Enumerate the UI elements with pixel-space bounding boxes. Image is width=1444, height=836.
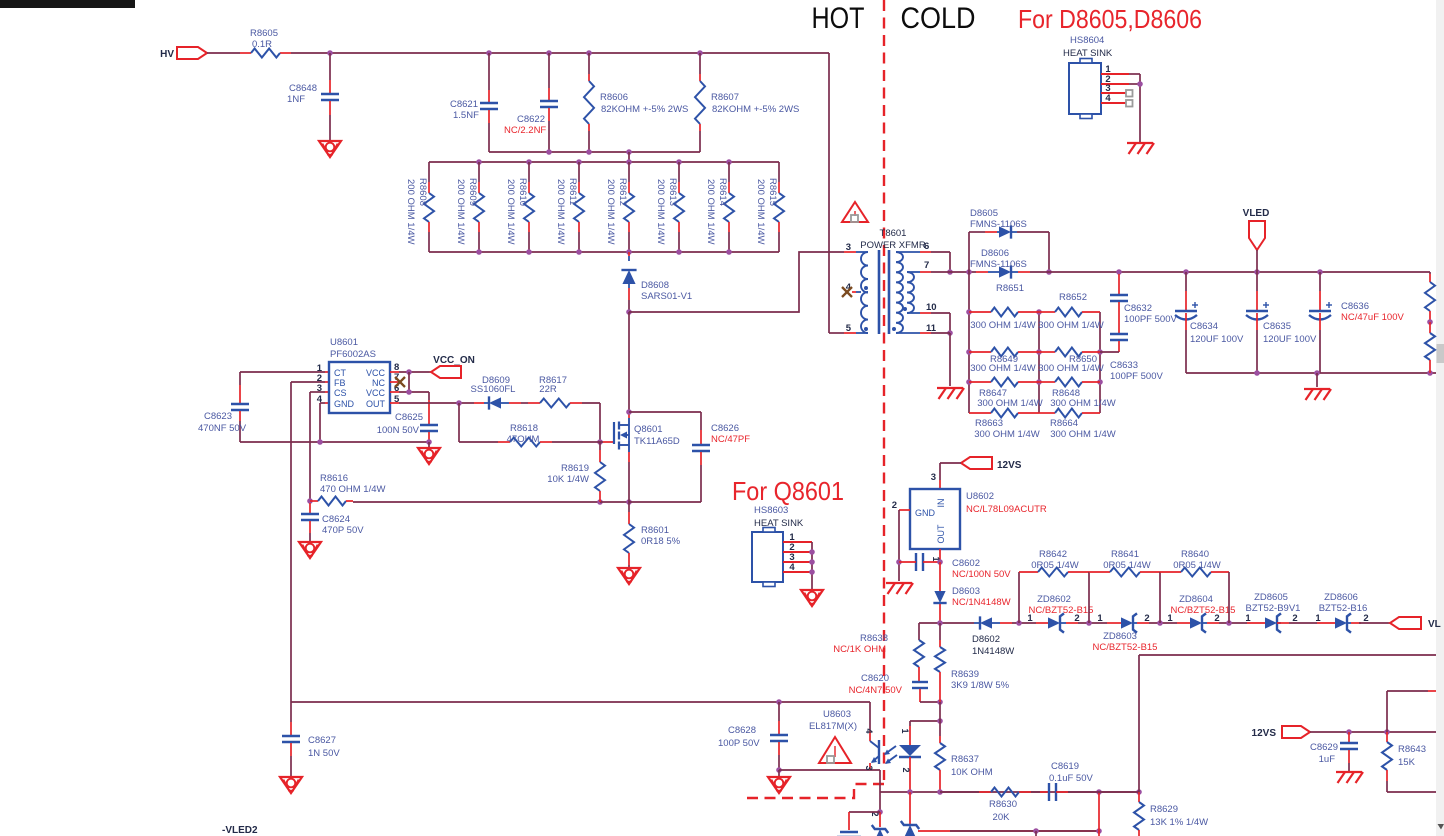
capacitor C8626: [629, 412, 750, 502]
wire bank top rail: [429, 159, 779, 165]
wire gnd bus U8601: [240, 439, 432, 447]
svg-text:POWER XFMR: POWER XFMR: [860, 240, 926, 251]
browser top bar fragment: [0, 0, 135, 8]
capacitor C8634: [1175, 272, 1244, 373]
wire chain seg4: [1219, 620, 1247, 626]
wire CT pin1: [240, 372, 329, 385]
wire drain: [626, 312, 632, 415]
capacitor C8619: [1040, 761, 1139, 801]
svg-text:3: 3: [864, 765, 874, 770]
svg-text:CT: CT: [334, 368, 346, 378]
resistor chain right edge bottom: [1425, 319, 1435, 373]
svg-text:4: 4: [1105, 93, 1111, 104]
svg-text:300 OHM 1/4W: 300 OHM 1/4W: [970, 363, 1035, 374]
diode D8605: [970, 208, 1027, 239]
svg-text:U8603: U8603: [823, 709, 851, 720]
svg-text:C8623: C8623: [204, 411, 232, 422]
resistor R8630: [940, 788, 1040, 824]
wire HV top rail: [207, 50, 829, 56]
svg-text:HEAT SINK: HEAT SINK: [1063, 48, 1113, 59]
resistor R8650: [1038, 348, 1103, 375]
svg-text:300 OHM 1/4W: 300 OHM 1/4W: [1050, 429, 1115, 440]
svg-text:120UF 100V: 120UF 100V: [1263, 334, 1317, 345]
svg-text:R8611: R8611: [567, 178, 578, 205]
svg-text:300 OHM 1/4W: 300 OHM 1/4W: [1038, 363, 1103, 374]
svg-text:BZT52-B16: BZT52-B16: [1319, 603, 1368, 614]
wire bottom rail 2: [918, 792, 1102, 836]
svg-text:C8625: C8625: [395, 412, 423, 423]
transformer T8601 secondary: [892, 241, 937, 334]
svg-text:0R05 1/4W: 0R05 1/4W: [1031, 560, 1079, 571]
svg-text:100PF 500V: 100PF 500V: [1110, 371, 1163, 382]
svg-text:GND: GND: [334, 399, 355, 409]
resistor R8643: [1382, 732, 1426, 792]
svg-text:R8612: R8612: [617, 178, 628, 206]
svg-text:R8613: R8613: [667, 178, 678, 206]
resistor R8608: [405, 162, 434, 252]
scrollbar track: [1436, 0, 1444, 836]
ic U8601: [317, 337, 400, 413]
wire net left bus: [966, 272, 972, 413]
wire pin10 join pin11: [920, 313, 953, 336]
svg-text:10K 1/4W: 10K 1/4W: [547, 474, 589, 485]
wire OUT pin5: [390, 400, 474, 406]
svg-text:3: 3: [931, 472, 936, 483]
svg-text:NC/4N7 50V: NC/4N7 50V: [849, 685, 903, 696]
svg-text:20K: 20K: [993, 812, 1011, 823]
svg-text:C8634: C8634: [1190, 321, 1218, 332]
label T8601: [860, 228, 926, 251]
resistor R8618 branch: [459, 403, 600, 447]
svg-text:300 OHM 1/4W: 300 OHM 1/4W: [977, 398, 1042, 409]
svg-text:47OHM: 47OHM: [507, 434, 540, 445]
svg-text:1: 1: [1167, 613, 1173, 624]
svg-text:IN: IN: [936, 499, 946, 508]
svg-text:R8651: R8651: [996, 283, 1024, 294]
svg-text:2: 2: [892, 500, 897, 511]
svg-text:470P 50V: 470P 50V: [322, 525, 364, 536]
wire VCC pin6: [390, 389, 429, 400]
wire bottom rail: [880, 789, 1142, 795]
svg-text:SS1060FL: SS1060FL: [471, 384, 516, 395]
svg-text:R8608: R8608: [417, 178, 428, 206]
svg-text:R8616: R8616: [320, 473, 348, 484]
svg-text:1NF: 1NF: [287, 94, 305, 105]
port 12VS: [961, 457, 1022, 471]
capacitor C8628: [718, 702, 788, 773]
svg-text:R8663: R8663: [975, 418, 1003, 429]
ic U8602: [910, 489, 1047, 549]
svg-text:0.1uF 50V: 0.1uF 50V: [1049, 773, 1093, 784]
resistor R8615: [755, 162, 784, 252]
svg-text:R8615: R8615: [767, 178, 778, 206]
resistor R8606: [584, 53, 688, 152]
resistor R8652: [1038, 292, 1103, 331]
wire bottom cap branch: [849, 812, 880, 830]
svg-text:For Q8601: For Q8601: [732, 476, 844, 506]
resistor R8637: [935, 721, 993, 792]
svg-text:C8635: C8635: [1263, 321, 1291, 332]
resistor R8629: [1134, 792, 1208, 836]
label U8603: [809, 709, 857, 732]
svg-text:3: 3: [846, 242, 851, 253]
capacitor C8621: [450, 53, 498, 152]
ground R8601: [618, 568, 640, 584]
ground C8624: [299, 542, 321, 558]
capacitor C8624: [301, 503, 364, 541]
zener ZD8606: [1315, 592, 1368, 633]
transistor Q8601: [614, 412, 680, 462]
wire GND pin4: [320, 403, 329, 442]
svg-text:-VLED2: -VLED2: [222, 825, 258, 836]
svg-text:470 OHM 1/4W: 470 OHM 1/4W: [320, 484, 385, 495]
resistor chain right edge top: [1425, 272, 1435, 322]
svg-text:NC/1K OHM: NC/1K OHM: [833, 644, 886, 655]
diode D8602: [972, 616, 1014, 657]
svg-text:R8629: R8629: [1150, 804, 1178, 815]
wire D8608 to xfmr pin3: [626, 252, 856, 315]
ground U8602: [886, 583, 913, 594]
svg-text:D8608: D8608: [641, 280, 669, 291]
svg-text:R8606: R8606: [600, 92, 628, 103]
svg-text:100PF 500V: 100PF 500V: [1124, 314, 1177, 325]
svg-text:300 OHM 1/4W: 300 OHM 1/4W: [1050, 398, 1115, 409]
svg-text:470NF 50V: 470NF 50V: [198, 423, 247, 434]
svg-text:R8601: R8601: [641, 525, 669, 536]
svg-text:2: 2: [1144, 613, 1149, 624]
svg-text:200 OHM 1/4W: 200 OHM 1/4W: [405, 179, 416, 244]
svg-text:U8602: U8602: [966, 491, 994, 502]
diode D8609: [471, 375, 521, 410]
ground C8628: [768, 770, 790, 793]
svg-text:C8621: C8621: [450, 99, 478, 110]
ground C8629: [1336, 772, 1363, 783]
wire HS8603 ground: [801, 542, 823, 606]
ground C8627: [280, 777, 302, 793]
svg-text:82KOHM +-5% 2WS: 82KOHM +-5% 2WS: [601, 104, 688, 115]
svg-text:2: 2: [1214, 613, 1219, 624]
heatsink HS8603: [752, 505, 812, 587]
svg-text:D8602: D8602: [972, 634, 1000, 645]
svg-text:2: 2: [901, 767, 911, 772]
capacitor C8625: [377, 400, 438, 441]
label -VLED2: [222, 825, 258, 836]
scrollbar thumb: [1437, 344, 1444, 363]
resistor R8663: [969, 409, 1040, 441]
wire pin7 output: [920, 269, 976, 275]
svg-text:R8640: R8640: [1181, 549, 1209, 560]
note For Q8601: [732, 476, 844, 506]
resistor R8649: [969, 348, 1039, 375]
svg-text:13K 1% 1/4W: 13K 1% 1/4W: [1150, 817, 1208, 828]
wire pin6 join pin7: [920, 252, 953, 275]
svg-text:OUT: OUT: [366, 399, 386, 409]
svg-text:C8629: C8629: [1310, 742, 1338, 753]
zener ZD8602: [1027, 594, 1093, 633]
svg-text:SARS01-V1: SARS01-V1: [641, 291, 692, 302]
wire U8602 pin1 out: [931, 549, 941, 562]
wire 12VS right rail: [1310, 729, 1436, 735]
svg-text:4: 4: [317, 394, 323, 405]
svg-text:NC/100N 50V: NC/100N 50V: [952, 569, 1011, 580]
svg-text:VL: VL: [1428, 619, 1441, 630]
wire 12VS to U8602: [931, 463, 961, 489]
wire opto emitter rail: [779, 770, 880, 792]
svg-text:C8602: C8602: [952, 558, 980, 569]
svg-text:0R05 1/4W: 0R05 1/4W: [1173, 560, 1221, 571]
resistor R8639: [935, 623, 1010, 702]
wire U8602 pin2 gnd: [892, 500, 910, 581]
svg-text:CS: CS: [334, 388, 347, 398]
opto led D: [899, 721, 921, 792]
svg-text:R8639: R8639: [951, 669, 979, 680]
zener bottom partial 2: [901, 792, 919, 836]
wire bank bottom rail: [429, 249, 779, 255]
svg-text:C8648: C8648: [289, 83, 317, 94]
capacitor C8623: [198, 385, 249, 442]
svg-text:HEAT SINK: HEAT SINK: [754, 518, 804, 529]
port VCC_ON: [431, 355, 475, 378]
svg-text:FMNS-1106S: FMNS-1106S: [970, 219, 1027, 230]
svg-text:C8633: C8633: [1110, 360, 1138, 371]
svg-text:15K: 15K: [1398, 757, 1416, 768]
wire R8639 to led node: [939, 702, 941, 721]
wire chain seg3: [1149, 620, 1177, 626]
svg-text:1.5NF: 1.5NF: [453, 110, 479, 121]
svg-text:R8619: R8619: [561, 463, 589, 474]
wire net right bus: [1097, 312, 1103, 413]
svg-text:NC: NC: [372, 378, 385, 388]
svg-text:R8664: R8664: [1050, 418, 1078, 429]
svg-text:100N 50V: 100N 50V: [377, 425, 420, 436]
svg-text:200 OHM 1/4W: 200 OHM 1/4W: [755, 179, 766, 244]
resistor R8616: [310, 473, 385, 506]
svg-text:NC/2.2NF: NC/2.2NF: [504, 125, 546, 136]
ground output bus: [1304, 373, 1331, 400]
svg-text:7: 7: [924, 260, 929, 271]
svg-text:1: 1: [1245, 613, 1251, 624]
svg-text:R8610: R8610: [517, 178, 528, 206]
svg-text:TK11A65D: TK11A65D: [634, 436, 680, 447]
resistor R8605: [250, 28, 280, 58]
wire source rail: [353, 462, 701, 505]
svg-text:NC/BZT52-B15: NC/BZT52-B15: [1171, 605, 1236, 616]
wire chain seg2: [1078, 620, 1107, 626]
svg-text:R8614: R8614: [717, 178, 728, 206]
resistor R8613: [655, 162, 684, 252]
wire chain to VL: [1359, 622, 1390, 624]
svg-text:VCC: VCC: [366, 388, 386, 398]
capacitor C8633: [1100, 302, 1163, 382]
svg-text:1: 1: [1027, 613, 1033, 624]
svg-text:ZD8602: ZD8602: [1037, 594, 1071, 605]
svg-text:COLD: COLD: [901, 2, 976, 35]
svg-text:120UF 100V: 120UF 100V: [1190, 334, 1244, 345]
svg-text:12VS: 12VS: [997, 460, 1022, 471]
resistor R8651 body: [969, 308, 1039, 332]
resistor R8610: [505, 162, 534, 252]
svg-text:82KOHM +-5% 2WS: 82KOHM +-5% 2WS: [712, 104, 799, 115]
hot-cold dashed divider: [744, 0, 884, 798]
svg-text:PF6002AS: PF6002AS: [330, 349, 376, 360]
wire D8605 loop: [969, 232, 1052, 275]
opto phototransistor: [864, 728, 879, 770]
wire VCC pin8: [390, 369, 431, 392]
resistor R8640: [1160, 549, 1229, 623]
svg-text:R8643: R8643: [1398, 744, 1426, 755]
svg-text:4: 4: [789, 562, 795, 573]
resistor R8612: [605, 162, 634, 252]
svg-text:C8622: C8622: [517, 114, 545, 125]
svg-text:R8607: R8607: [711, 92, 739, 103]
port VLED: [1243, 208, 1270, 272]
svg-text:200 OHM 1/4W: 200 OHM 1/4W: [505, 179, 516, 244]
svg-text:HS8604: HS8604: [1070, 35, 1104, 46]
port 12VS right: [1252, 726, 1310, 739]
diode D8606: [970, 248, 1030, 294]
capacitor C8648: [287, 53, 339, 140]
svg-text:R8641: R8641: [1111, 549, 1139, 560]
capacitor C8629: [1310, 732, 1358, 771]
ground xfmr secondary: [937, 388, 964, 399]
scrollbar arrow: [1438, 824, 1444, 830]
svg-text:Q8601: Q8601: [634, 424, 663, 435]
resistor R8664: [1039, 409, 1116, 441]
capacitor C8636: [1309, 272, 1405, 373]
opto light arrows: [884, 746, 897, 764]
resistor R8619: [547, 442, 605, 502]
svg-text:R8652: R8652: [1059, 292, 1087, 303]
note For D8605,D8606: [1018, 4, 1202, 34]
svg-text:12VS: 12VS: [1252, 728, 1277, 739]
svg-text:5: 5: [846, 323, 852, 334]
svg-text:22R: 22R: [539, 384, 557, 395]
svg-text:C8626: C8626: [711, 423, 739, 434]
warning triangle near T8601: [842, 202, 868, 222]
wire led anode: [910, 718, 943, 724]
svg-text:1N 50V: 1N 50V: [308, 748, 340, 759]
svg-text:OUT: OUT: [936, 524, 946, 544]
port HV: [160, 47, 207, 60]
wire VLED rail: [1030, 269, 1430, 275]
zener ZD8603: [1093, 613, 1158, 653]
svg-text:3: 3: [317, 383, 322, 394]
svg-text:1: 1: [1315, 613, 1321, 624]
wire snubber bottom bus: [489, 149, 700, 162]
resistor R8609: [455, 162, 484, 252]
svg-text:T8601: T8601: [880, 228, 907, 239]
diode D8608: [621, 252, 692, 312]
wire HV to xfmr pin5: [829, 53, 856, 333]
capacitor C8632: [1110, 274, 1177, 325]
svg-text:ZD8606: ZD8606: [1324, 592, 1358, 603]
ground C8625: [418, 448, 440, 464]
svg-text:200 OHM 1/4W: 200 OHM 1/4W: [455, 179, 466, 244]
svg-text:1: 1: [1097, 613, 1103, 624]
svg-text:1uF: 1uF: [1319, 754, 1336, 765]
svg-text:R8638: R8638: [860, 633, 888, 644]
svg-text:300 OHM 1/4W: 300 OHM 1/4W: [974, 429, 1039, 440]
svg-text:NC/47PF: NC/47PF: [711, 434, 750, 445]
svg-text:HV: HV: [160, 49, 174, 60]
svg-text:HOT: HOT: [812, 2, 865, 35]
capacitor C8602: [899, 553, 1011, 580]
wire pin11 to ground: [920, 333, 950, 386]
svg-text:R8630: R8630: [989, 799, 1017, 810]
svg-text:R8642: R8642: [1039, 549, 1067, 560]
capacitor C8635: [1246, 272, 1317, 373]
svg-text:ZD8604: ZD8604: [1179, 594, 1213, 605]
svg-text:D8606: D8606: [981, 248, 1009, 259]
ground C8648: [319, 141, 341, 157]
zener ZD8604: [1167, 594, 1235, 633]
wire bottom left drop: [870, 792, 883, 827]
svg-text:GND: GND: [915, 508, 936, 518]
diode D8603: [933, 562, 1010, 623]
svg-text:VLED: VLED: [1243, 208, 1270, 219]
transformer T8601 primary: [846, 242, 868, 334]
svg-text:D8603: D8603: [952, 586, 980, 597]
resistor R8617: [521, 375, 600, 408]
svg-text:10K OHM: 10K OHM: [951, 767, 993, 778]
wire R8643 frame: [1387, 691, 1436, 792]
wire gate corner: [597, 403, 613, 445]
svg-text:200 OHM 1/4W: 200 OHM 1/4W: [655, 179, 666, 244]
wire chain seg5: [1289, 622, 1317, 624]
svg-text:0R05 1/4W: 0R05 1/4W: [1103, 560, 1151, 571]
resistor R8648: [1039, 378, 1116, 410]
capacitor C8627: [282, 702, 340, 776]
svg-text:10: 10: [926, 302, 937, 313]
svg-text:FB: FB: [334, 378, 346, 388]
svg-text:ZD8603: ZD8603: [1103, 631, 1137, 642]
svg-text:3K9 1/8W 5%: 3K9 1/8W 5%: [951, 680, 1010, 691]
svg-text:1N4148W: 1N4148W: [972, 646, 1014, 657]
wire output bottom bus: [1186, 370, 1436, 376]
COLD label: [901, 2, 976, 35]
capacitor bottom partial: [837, 832, 861, 836]
resistor R8641: [1089, 549, 1160, 623]
svg-text:C8636: C8636: [1341, 301, 1369, 312]
wire FB pin2 vertical: [291, 382, 329, 702]
svg-text:VCC: VCC: [366, 368, 386, 378]
capacitor C8620: [849, 673, 943, 705]
resistor R8647: [969, 378, 1043, 410]
svg-text:ZD8605: ZD8605: [1254, 592, 1288, 603]
wire FB bottom rail: [291, 699, 870, 705]
resistor R8642: [1019, 549, 1089, 623]
svg-text:D8605: D8605: [970, 208, 998, 219]
svg-text:200 OHM 1/4W: 200 OHM 1/4W: [555, 179, 566, 244]
wire zener chain left: [919, 620, 974, 626]
svg-text:C8620: C8620: [861, 673, 889, 684]
svg-text:NC/BZT52-B15: NC/BZT52-B15: [1093, 642, 1158, 653]
svg-text:C8628: C8628: [728, 725, 756, 736]
resistor R8611: [555, 162, 584, 252]
svg-text:4: 4: [864, 728, 874, 733]
heatsink HS8604: [1063, 35, 1133, 119]
svg-text:0R18 5%: 0R18 5%: [641, 536, 681, 547]
wire right vertical: [1139, 655, 1436, 792]
svg-text:C8619: C8619: [1051, 761, 1079, 772]
resistor R8607: [695, 53, 799, 152]
svg-text:300 OHM 1/4W: 300 OHM 1/4W: [1038, 320, 1103, 331]
resistor R8601: [624, 502, 681, 567]
svg-text:R8637: R8637: [951, 754, 979, 765]
svg-text:EL817M(X): EL817M(X): [809, 721, 857, 732]
port VL: [1390, 617, 1441, 630]
svg-text:FMNS-1106S: FMNS-1106S: [970, 259, 1027, 270]
